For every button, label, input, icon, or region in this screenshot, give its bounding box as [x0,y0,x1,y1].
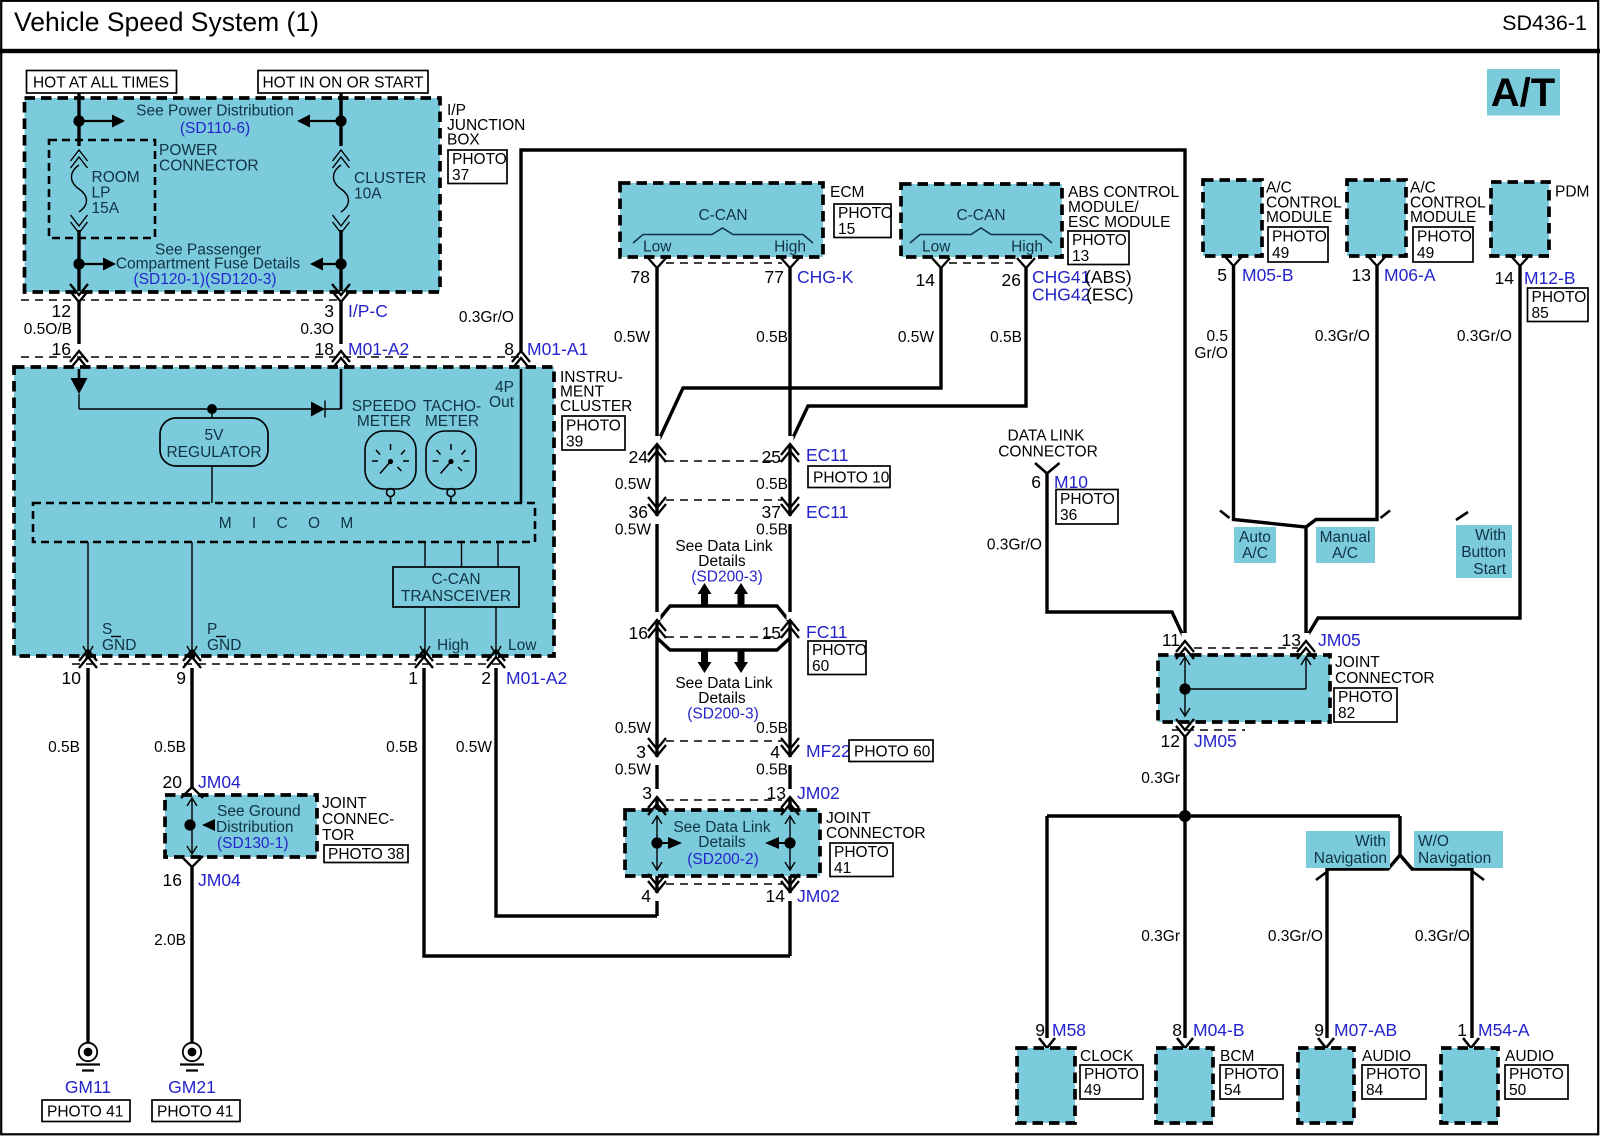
svg-text:0.3Gr/O: 0.3Gr/O [1457,328,1512,345]
svg-text:PHOTO: PHOTO [1509,1066,1564,1083]
svg-text:Low: Low [643,239,672,256]
svg-text:BCM: BCM [1220,1048,1254,1065]
svg-text:14: 14 [916,270,936,290]
svg-text:M58: M58 [1052,1020,1086,1040]
svg-text:0.5B: 0.5B [48,739,80,756]
svg-text:JM04: JM04 [198,870,241,890]
svg-text:37: 37 [452,167,469,184]
svg-text:I/P-C: I/P-C [348,301,388,321]
svg-text:0.3Gr: 0.3Gr [1141,928,1180,945]
svg-text:12: 12 [1161,731,1180,751]
svg-text:M I C O M: M I C O M [219,515,362,532]
svg-text:0.5B: 0.5B [756,720,788,737]
svg-text:With: With [1475,527,1506,544]
svg-text:CONNECTOR: CONNECTOR [1335,670,1435,687]
svg-text:Low: Low [922,239,951,256]
svg-text:Distribution: Distribution [216,819,294,836]
svg-text:CONNECTOR: CONNECTOR [826,825,926,842]
svg-text:0.5O/B: 0.5O/B [24,321,72,338]
svg-text:High: High [774,239,806,256]
svg-text:25: 25 [762,447,781,467]
svg-text:AUDIO: AUDIO [1362,1048,1411,1065]
svg-text:C-CAN: C-CAN [431,571,480,588]
svg-text:36: 36 [1060,507,1077,524]
svg-text:JM02: JM02 [797,783,840,803]
svg-text:AUDIO: AUDIO [1505,1048,1554,1065]
svg-text:13: 13 [1352,265,1371,285]
svg-text:A/T: A/T [1491,71,1555,115]
svg-text:4: 4 [770,742,780,762]
svg-text:49: 49 [1417,245,1434,262]
svg-text:Button: Button [1461,544,1506,561]
svg-text:8: 8 [504,339,514,359]
svg-text:2: 2 [481,668,491,688]
svg-text:84: 84 [1366,1082,1384,1099]
svg-text:11: 11 [1162,630,1180,650]
svg-text:High: High [1011,239,1043,256]
svg-text:26: 26 [1002,270,1021,290]
svg-text:PHOTO: PHOTO [566,418,621,435]
svg-text:JM05: JM05 [1194,731,1237,751]
svg-text:FC11: FC11 [806,622,848,642]
svg-text:3: 3 [636,742,646,762]
svg-text:M06-A: M06-A [1384,265,1436,285]
svg-text:C-CAN: C-CAN [956,207,1005,224]
svg-text:(SD200-2): (SD200-2) [687,851,759,868]
svg-text:60: 60 [812,658,830,675]
svg-text:TRANSCEIVER: TRANSCEIVER [401,588,511,605]
svg-text:PHOTO: PHOTO [1084,1066,1139,1083]
svg-text:PHOTO: PHOTO [812,642,867,659]
svg-text:High: High [437,637,469,654]
svg-text:C-CAN: C-CAN [698,207,747,224]
svg-text:9: 9 [1035,1020,1045,1040]
svg-text:2.0B: 2.0B [154,932,186,949]
svg-text:13: 13 [1282,630,1301,650]
svg-text:0.5W: 0.5W [898,329,935,346]
svg-text:POWER: POWER [159,142,218,159]
svg-text:18: 18 [315,339,334,359]
svg-text:JM04: JM04 [198,772,241,792]
svg-text:M05-B: M05-B [1242,265,1294,285]
svg-text:Manual: Manual [1320,529,1371,546]
svg-text:Start: Start [1473,561,1506,578]
svg-text:0.5B: 0.5B [990,329,1022,346]
svg-text:PHOTO: PHOTO [1366,1066,1421,1083]
svg-text:See Ground: See Ground [217,803,301,820]
svg-text:ESC MODULE: ESC MODULE [1068,214,1171,231]
svg-text:85: 85 [1532,305,1549,322]
svg-text:(SD200-3): (SD200-3) [691,569,763,586]
svg-text:5V: 5V [205,427,225,444]
svg-text:6: 6 [1031,472,1041,492]
svg-text:0.5B: 0.5B [756,762,788,779]
svg-text:JOINT: JOINT [322,795,367,812]
svg-text:PHOTO: PHOTO [834,844,889,861]
svg-text:MODULE: MODULE [1410,209,1476,226]
svg-text:PHOTO: PHOTO [1072,232,1127,249]
svg-text:PHOTO: PHOTO [1532,289,1587,306]
svg-text:PHOTO: PHOTO [452,151,507,168]
svg-text:14: 14 [1495,268,1515,288]
svg-text:DATA LINK: DATA LINK [1008,428,1086,445]
svg-text:Details: Details [698,553,746,570]
svg-text:Gr/O: Gr/O [1194,345,1228,362]
svg-text:14: 14 [766,886,786,906]
svg-text:0.5B: 0.5B [756,329,788,346]
svg-text:16: 16 [52,339,71,359]
svg-text:0.3Gr/O: 0.3Gr/O [1315,328,1370,345]
svg-text:GND: GND [207,637,241,654]
svg-text:13: 13 [767,783,786,803]
svg-text:16: 16 [629,623,648,643]
svg-text:20: 20 [163,772,183,792]
svg-text:GND: GND [102,637,136,654]
svg-text:With: With [1355,833,1386,850]
svg-text:CLOCK: CLOCK [1080,1048,1134,1065]
svg-text:0.3Gr/O: 0.3Gr/O [459,309,514,326]
svg-text:PHOTO: PHOTO [1272,229,1327,246]
svg-text:CONNEC-: CONNEC- [322,811,394,828]
svg-text:0.5W: 0.5W [456,739,493,756]
svg-text:JOINT: JOINT [1335,654,1380,671]
svg-text:SD436-1: SD436-1 [1502,11,1587,35]
svg-text:54: 54 [1224,1082,1242,1099]
svg-text:M01-A2: M01-A2 [348,339,409,359]
svg-text:Low: Low [508,637,537,654]
svg-text:See Power Distribution: See Power Distribution [136,103,294,120]
svg-text:PHOTO: PHOTO [1224,1066,1279,1083]
svg-text:TOR: TOR [322,827,354,844]
svg-text:0.5W: 0.5W [615,476,652,493]
svg-text:CONNECTOR: CONNECTOR [998,444,1098,461]
svg-text:24: 24 [629,447,649,467]
svg-text:ROOM: ROOM [92,169,140,186]
svg-text:ECM: ECM [830,184,864,201]
svg-text:49: 49 [1272,245,1289,262]
svg-text:15: 15 [838,221,855,238]
svg-text:3: 3 [324,301,334,321]
svg-text:JM02: JM02 [797,886,840,906]
svg-text:1: 1 [1457,1020,1467,1040]
svg-text:77: 77 [765,267,784,287]
svg-text:EC11: EC11 [806,502,848,522]
svg-text:0.5B: 0.5B [756,522,788,539]
svg-text:5: 5 [1217,265,1227,285]
svg-text:4: 4 [641,886,651,906]
svg-text:0.5B: 0.5B [386,739,418,756]
svg-text:CLUSTER: CLUSTER [560,398,632,415]
svg-text:M01-A1: M01-A1 [527,339,588,359]
svg-text:13: 13 [1072,248,1089,265]
svg-text:M07-AB: M07-AB [1334,1020,1397,1040]
svg-text:M01-A2: M01-A2 [506,668,567,688]
svg-text:10: 10 [62,668,82,688]
svg-text:A/C: A/C [1332,545,1358,562]
svg-text:Navigation: Navigation [1418,850,1491,867]
svg-text:8: 8 [1172,1020,1182,1040]
svg-text:78: 78 [631,267,650,287]
svg-text:15A: 15A [92,200,120,217]
svg-text:REGULATOR: REGULATOR [166,444,261,461]
svg-text:0.5: 0.5 [1206,328,1228,345]
svg-text:W/O: W/O [1418,833,1449,850]
svg-text:(SD130-1): (SD130-1) [217,835,289,852]
svg-text:M12-B: M12-B [1524,268,1576,288]
svg-text:METER: METER [357,413,411,430]
svg-text:JM05: JM05 [1318,630,1361,650]
svg-text:1: 1 [408,668,418,688]
svg-text:50: 50 [1509,1082,1527,1099]
svg-text:PHOTO: PHOTO [1060,491,1115,508]
svg-text:0.3Gr/O: 0.3Gr/O [1415,928,1470,945]
svg-text:(SD120-1)(SD120-3): (SD120-1)(SD120-3) [134,271,277,288]
svg-text:0.5B: 0.5B [154,739,186,756]
svg-text:41: 41 [834,860,851,877]
svg-text:39: 39 [566,434,583,451]
svg-text:0.5W: 0.5W [615,720,652,737]
svg-text:Details: Details [698,690,746,707]
svg-text:(SD110-6): (SD110-6) [180,120,250,137]
svg-text:0.3O: 0.3O [300,321,334,338]
svg-text:0.3Gr/O: 0.3Gr/O [987,537,1042,554]
svg-text:0.5W: 0.5W [614,329,651,346]
svg-text:S: S [102,621,112,638]
svg-text:12: 12 [52,301,71,321]
svg-text:EC11: EC11 [806,445,848,465]
svg-text:82: 82 [1338,705,1355,722]
svg-text:0.5B: 0.5B [756,476,788,493]
svg-text:PHOTO 60: PHOTO 60 [854,744,931,761]
svg-text:10A: 10A [354,186,382,203]
svg-text:16: 16 [163,870,182,890]
svg-text:Compartment Fuse Details: Compartment Fuse Details [116,256,301,273]
svg-text:PHOTO: PHOTO [838,205,893,222]
svg-text:LP: LP [92,185,111,202]
svg-text:Auto: Auto [1239,529,1271,546]
svg-text:GM11: GM11 [65,1077,111,1097]
svg-text:37: 37 [762,502,781,522]
svg-text:PHOTO 41: PHOTO 41 [157,1104,233,1121]
svg-text:3: 3 [642,783,652,803]
svg-text:36: 36 [629,502,648,522]
svg-text:9: 9 [176,668,186,688]
svg-text:M54-A: M54-A [1478,1020,1530,1040]
svg-text:MF22: MF22 [806,741,851,761]
svg-text:(ESC): (ESC) [1086,285,1134,305]
svg-text:Details: Details [698,834,746,851]
svg-text:A/C: A/C [1242,545,1268,562]
svg-text:P: P [207,621,217,638]
svg-text:PHOTO: PHOTO [1417,229,1472,246]
svg-text:M04-B: M04-B [1193,1020,1245,1040]
svg-text:Vehicle Speed System (1): Vehicle Speed System (1) [14,7,319,37]
svg-text:(SD200-3): (SD200-3) [687,706,759,723]
svg-text:49: 49 [1084,1082,1101,1099]
svg-text:BOX: BOX [447,132,480,149]
svg-text:15: 15 [762,623,781,643]
svg-text:PHOTO 41: PHOTO 41 [47,1104,123,1121]
svg-text:CHG-K: CHG-K [797,267,854,287]
svg-text:0.3Gr: 0.3Gr [1141,770,1180,787]
svg-text:0.5W: 0.5W [615,762,652,779]
svg-text:CONNECTOR: CONNECTOR [159,158,259,175]
svg-text:0.3Gr/O: 0.3Gr/O [1268,928,1323,945]
svg-text:PHOTO 38: PHOTO 38 [328,846,404,863]
svg-text:PHOTO 10: PHOTO 10 [813,470,890,487]
svg-text:Out: Out [489,394,515,411]
svg-text:GM21: GM21 [168,1077,216,1097]
svg-text:PHOTO: PHOTO [1338,689,1393,706]
svg-text:Navigation: Navigation [1314,850,1387,867]
svg-text:METER: METER [425,413,479,430]
svg-text:HOT IN ON OR START: HOT IN ON OR START [262,75,424,92]
svg-text:9: 9 [1314,1020,1324,1040]
svg-text:HOT AT ALL TIMES: HOT AT ALL TIMES [33,75,169,92]
svg-text:CHG42: CHG42 [1032,285,1090,305]
svg-text:0.5W: 0.5W [615,522,652,539]
svg-text:MODULE: MODULE [1266,209,1332,226]
svg-text:CLUSTER: CLUSTER [354,170,426,187]
svg-text:PDM: PDM [1555,184,1589,201]
